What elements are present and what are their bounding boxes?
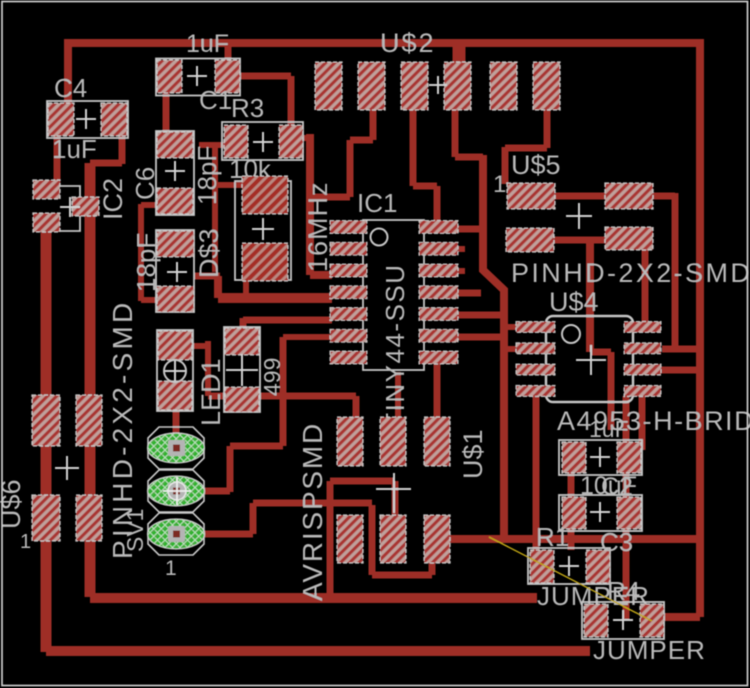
wire <box>429 560 436 575</box>
wire <box>46 646 590 656</box>
wire <box>199 142 226 148</box>
wire <box>85 163 96 597</box>
wire <box>141 297 161 303</box>
wire <box>230 443 283 450</box>
wire <box>64 43 72 106</box>
wire <box>696 39 704 617</box>
wire <box>227 446 234 492</box>
wire <box>437 535 701 543</box>
svg-text:D$3: D$3 <box>194 228 224 278</box>
wire <box>303 135 312 141</box>
svg-text:A4953-H-BRIDG: A4953-H-BRIDG <box>557 406 750 436</box>
svg-text:U$5: U$5 <box>511 150 561 180</box>
wire <box>194 273 220 280</box>
wire <box>214 276 222 298</box>
resistor R2 (499) <box>224 327 285 412</box>
wire <box>395 372 401 422</box>
wire <box>372 572 432 579</box>
wire <box>283 334 331 340</box>
wire <box>504 324 517 330</box>
jumper R1 <box>528 522 650 611</box>
wire <box>413 183 437 190</box>
airwire (ratsnest) <box>489 537 652 621</box>
wire <box>458 268 465 274</box>
wire <box>238 73 291 80</box>
wire <box>544 108 551 148</box>
svg-text:C1: C1 <box>199 85 232 115</box>
wire <box>90 160 122 167</box>
LED LED1 <box>157 330 226 426</box>
capacitor C6 <box>130 131 222 215</box>
wire <box>243 317 332 324</box>
wire <box>350 137 373 144</box>
wire <box>458 226 483 233</box>
svg-text:1: 1 <box>493 171 506 198</box>
svg-text:C4: C4 <box>54 73 87 103</box>
wire <box>163 92 170 136</box>
wire <box>54 136 61 184</box>
wire <box>253 500 372 507</box>
wire <box>639 395 646 450</box>
wire <box>504 346 517 352</box>
svg-text:18pF: 18pF <box>131 233 161 292</box>
svg-text:IC1: IC1 <box>357 188 397 218</box>
wire <box>672 193 679 349</box>
header U$6 <box>0 300 138 559</box>
wire <box>452 110 459 157</box>
svg-text:C6: C6 <box>130 167 160 200</box>
wire <box>280 337 287 446</box>
svg-text:JUMPER: JUMPER <box>593 635 706 665</box>
wire <box>327 481 334 597</box>
wire <box>204 488 230 495</box>
wire <box>218 293 332 303</box>
header U$5 (PINHD-2X2-SMD) <box>493 150 750 288</box>
wire <box>240 318 247 330</box>
wire <box>205 341 211 396</box>
wire <box>623 396 630 620</box>
wire <box>173 407 180 436</box>
wire <box>204 531 253 538</box>
wire <box>138 204 144 301</box>
connector U$1 (AVRISPSMD) <box>297 417 488 601</box>
wire <box>590 349 611 356</box>
wire <box>353 396 360 422</box>
svg-text:AVRISPSMD: AVRISPSMD <box>297 422 328 601</box>
wire <box>458 334 502 341</box>
svg-text:1: 1 <box>165 557 177 580</box>
wire <box>225 43 232 62</box>
wire <box>330 478 395 485</box>
svg-text:C2: C2 <box>601 473 633 501</box>
svg-text:C3: C3 <box>600 527 633 557</box>
IC U$4 (A4953-H-BRIDGE) <box>516 287 750 436</box>
wire <box>434 364 441 420</box>
regulator IC2 <box>33 178 128 232</box>
wire <box>568 442 575 550</box>
wire <box>458 312 504 319</box>
wire <box>41 231 52 652</box>
capacitor U$3 (10uF) <box>559 416 642 500</box>
wire <box>392 481 399 517</box>
svg-text:1uF: 1uF <box>589 416 629 442</box>
wire <box>660 367 700 374</box>
crystal D$3 (16MHz) <box>194 176 333 281</box>
svg-text:1uF: 1uF <box>186 30 229 58</box>
svg-text:U$4: U$4 <box>549 287 599 317</box>
svg-text:R1: R1 <box>536 522 569 552</box>
svg-text:U$1: U$1 <box>458 429 488 479</box>
svg-text:R3: R3 <box>231 93 264 123</box>
resistor R3 <box>222 93 303 184</box>
wire <box>208 393 356 400</box>
wire <box>369 505 376 575</box>
capacitor C2 <box>559 473 642 531</box>
wire <box>483 155 504 539</box>
wire <box>662 346 700 353</box>
wire <box>119 134 126 164</box>
svg-text:PINHD-2X2-SMD: PINHD-2X2-SMD <box>107 300 138 559</box>
wire <box>453 43 466 64</box>
wire <box>458 246 465 252</box>
svg-text:18pF: 18pF <box>192 146 222 205</box>
connector SV1 <box>122 427 205 580</box>
wire <box>306 134 314 275</box>
header U$2 <box>315 28 560 110</box>
wire <box>310 194 350 201</box>
wire <box>310 271 332 279</box>
svg-text:499: 499 <box>259 358 285 396</box>
wire <box>586 240 594 352</box>
wire <box>347 140 354 197</box>
wire <box>215 182 244 188</box>
wire <box>288 76 295 127</box>
svg-text:1uF: 1uF <box>52 134 97 164</box>
svg-text:U$6: U$6 <box>0 479 26 529</box>
svg-text:U$2: U$2 <box>380 28 436 58</box>
capacitor C1 <box>156 30 240 115</box>
wire <box>141 202 161 208</box>
svg-text:IC2: IC2 <box>98 178 128 220</box>
wire <box>250 503 257 534</box>
svg-text:16MHz: 16MHz <box>303 181 333 272</box>
wire <box>243 278 249 294</box>
svg-text:LED1: LED1 <box>196 358 226 426</box>
capacitor C4 <box>47 73 128 164</box>
wire <box>410 110 417 186</box>
IC IC1 (ATTINY44-SSU) <box>330 188 458 463</box>
wire <box>608 352 615 430</box>
svg-text:R4: R4 <box>607 576 640 606</box>
jumper R4 <box>582 576 706 665</box>
wire <box>90 593 537 603</box>
wire <box>505 145 547 152</box>
wire <box>458 290 481 297</box>
wire <box>533 390 540 555</box>
svg-text:PINHD-2X2-SMD: PINHD-2X2-SMD <box>511 258 750 288</box>
wire <box>212 145 218 272</box>
wire <box>662 613 700 621</box>
wire <box>545 237 615 244</box>
capacitor C7 <box>131 230 194 312</box>
wire <box>191 343 209 349</box>
svg-text:1: 1 <box>20 531 31 553</box>
wire <box>370 110 377 140</box>
wire <box>434 186 441 226</box>
wire <box>502 147 509 184</box>
wire <box>64 39 700 47</box>
wire <box>642 246 649 330</box>
wire <box>540 193 675 200</box>
wire <box>501 315 508 327</box>
wire <box>455 154 483 161</box>
